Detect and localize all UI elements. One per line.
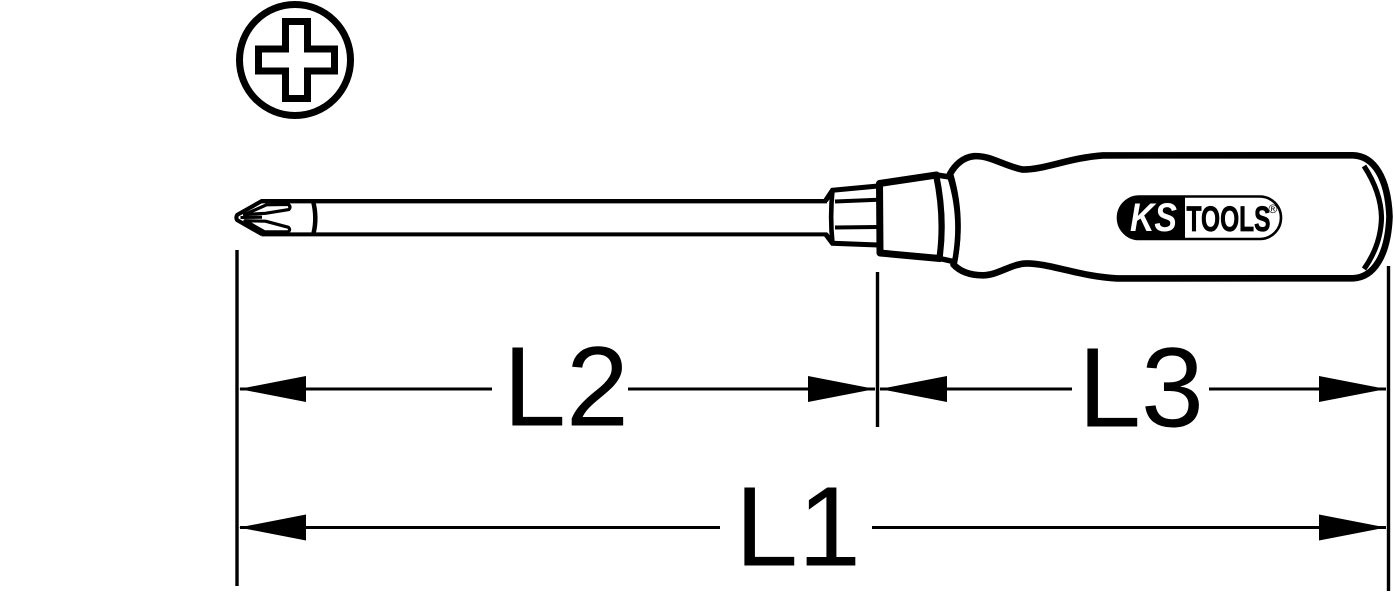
L2 right arrowhead <box>808 376 875 402</box>
L1 dimension line <box>240 526 720 529</box>
neck ring <box>937 175 958 262</box>
svg-text:KS: KS <box>1130 196 1177 240</box>
svg-text:L3: L3 <box>1078 325 1204 451</box>
L3 right arrowhead <box>1319 376 1386 402</box>
L3 left arrowhead <box>880 376 947 402</box>
L3 dimension line <box>880 388 1072 391</box>
dimension extension line middle <box>876 272 879 427</box>
dimension extension line left <box>235 250 238 586</box>
L2 dimension line <box>240 388 492 391</box>
phillips symbol circle <box>240 5 351 116</box>
phillips tip outline <box>236 201 262 234</box>
svg-text:®: ® <box>1269 202 1278 216</box>
L1 right arrowhead <box>1319 515 1386 541</box>
collar (ferrule) <box>880 175 943 259</box>
phillips symbol cross <box>259 22 335 99</box>
tip-to-shaft transition arc <box>313 201 315 233</box>
tip bottom wing <box>245 221 290 232</box>
L2 left arrowhead <box>239 376 306 402</box>
KS TOOLS logo pill <box>1118 196 1281 240</box>
dimension extension line right <box>1387 266 1390 591</box>
tip top wing <box>245 204 290 214</box>
svg-text:TOOLS: TOOLS <box>1187 200 1271 239</box>
tip center ridge <box>241 216 263 219</box>
shaft <box>261 201 827 234</box>
screwdriver handle outline <box>950 155 1390 278</box>
handle end cap inner arc <box>1364 166 1382 269</box>
svg-text:L2: L2 <box>503 324 629 450</box>
hex bolster <box>826 186 879 245</box>
svg-text:L1: L1 <box>735 464 861 590</box>
L1 left arrowhead <box>239 515 306 541</box>
